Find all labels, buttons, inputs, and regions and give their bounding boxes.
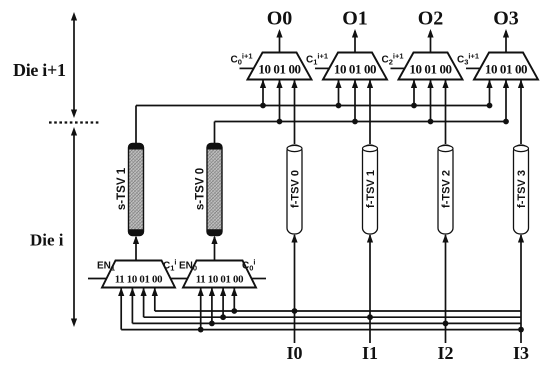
net A: s-TSV 1 output bus wire (136, 106, 490, 144)
wire net-B tap to U2 input 01 (427, 80, 433, 122)
svg-text:10 01 00: 10 01 00 (409, 62, 451, 77)
junction dot net-B at U2 (428, 119, 434, 125)
bus line 1 (net I0) (155, 310, 521, 312)
svg-text:Die i+1: Die i+1 (13, 60, 66, 80)
select wire C0^i into U5 right side (252, 278, 267, 280)
die i+1 extent arrow (71, 12, 77, 118)
wire U5 input 11 from bus line 4 (198, 288, 204, 330)
junction dot I1 to bus line 2 (367, 314, 373, 320)
select wire C1^i into U4 right side, joins EN0 stub (171, 278, 188, 280)
svg-text:I2: I2 (437, 343, 453, 363)
wire f-TSV 1 top to U1 input 00 (367, 80, 373, 145)
junction dot U5 input 10 on bus line 3 (209, 321, 215, 327)
f-TSV 0 cylinder (287, 145, 302, 234)
wire output of U3 to O3 (503, 29, 509, 53)
op mux U3 (output mux O3) (474, 53, 538, 80)
wire U4 input 01 from bus line 2 (141, 288, 147, 318)
wire net-B tap to U0 input 01 (276, 80, 282, 122)
die i extent arrow (71, 127, 77, 327)
junction dot I2 to bus line 3 (443, 321, 449, 327)
s-TSV capsule s-TSV 0 (207, 144, 222, 236)
junction dot U5 input 11 on bus line 4 (198, 327, 204, 333)
junction dot I3 to bus line 4 (518, 327, 524, 333)
f-TSV 1 cylinder (363, 145, 378, 234)
wire net-A tap to U2 input 10 (411, 80, 417, 106)
wire output of U0 to O0 (276, 29, 282, 53)
junction dot net-A at U2 (411, 103, 417, 109)
f-TSV 2 cylinder (438, 145, 453, 234)
junction dot net-A at U1 (336, 103, 342, 109)
svg-text:s-TSV 0: s-TSV 0 (195, 168, 207, 210)
svg-text:I3: I3 (513, 343, 529, 363)
wire net-A tap to U3 input 10 (486, 80, 492, 106)
select wire EN1 into U4 (88, 278, 107, 280)
wire net-A tap to U0 input 10 (260, 80, 266, 106)
svg-text:f-TSV 1: f-TSV 1 (365, 170, 377, 208)
svg-text:10 01 00: 10 01 00 (258, 62, 300, 77)
wire output of U2 to O2 (427, 29, 433, 53)
wire U4 input 10 from bus line 3 (129, 288, 135, 324)
svg-text:O2: O2 (418, 8, 444, 30)
wire f-TSV 0 top to U0 input 00 (291, 80, 297, 145)
select wire C3 i+1 into U3 (466, 67, 481, 69)
svg-text:O1: O1 (342, 8, 368, 30)
junction dot net-B at U0 (277, 119, 283, 125)
svg-text:O3: O3 (493, 8, 519, 30)
junction dot U5 input 01 on bus line 2 (220, 314, 226, 320)
svg-text:f-TSV 2: f-TSV 2 (440, 170, 452, 208)
ip mux U4 (drives s-TSV 1) (102, 261, 175, 288)
wire U5 input 01 from bus line 2 (220, 288, 226, 318)
wire input I3 up into f-TSV 3 (518, 234, 524, 343)
junction dot net-B at U1 (352, 119, 358, 125)
wire output of U5 into s-TSV 0 (211, 236, 217, 261)
select wire C2 i+1 into U2 (391, 67, 406, 69)
bus line 2 (net I1) (144, 316, 521, 318)
wire net-B tap to U1 input 01 (352, 80, 358, 122)
wire net-A tap to U1 input 10 (335, 80, 341, 106)
wire U5 input 10 from bus line 3 (209, 288, 215, 324)
wire output of U1 to O1 (352, 29, 358, 53)
op mux U2 (output mux O2) (399, 53, 463, 80)
wire f-TSV 2 top to U2 input 00 (442, 80, 448, 145)
svg-text:10 01 00: 10 01 00 (334, 62, 376, 77)
op mux U0 (output mux O0) (248, 53, 312, 80)
svg-text:I0: I0 (286, 343, 302, 363)
wire input I2 up into f-TSV 2 (442, 234, 448, 343)
wire U5 input 00 from bus line 1 (231, 288, 237, 312)
svg-text:s-TSV 1: s-TSV 1 (116, 167, 128, 210)
junction dot net-A at U3 (487, 103, 493, 109)
svg-text:11 10 01 00: 11 10 01 00 (196, 274, 243, 286)
net B: s-TSV 0 output bus wire (215, 122, 507, 144)
svg-text:I1: I1 (362, 343, 378, 363)
wire input I0 up into f-TSV 0 (291, 234, 297, 343)
wire f-TSV 3 top to U3 input 00 (518, 80, 524, 145)
junction dot net-A at U0 (260, 103, 266, 109)
wire net-B tap to U3 input 01 (503, 80, 509, 122)
svg-text:f-TSV 0: f-TSV 0 (289, 170, 301, 208)
junction dot net-B at U3 (503, 119, 509, 125)
svg-text:10 01 00: 10 01 00 (485, 62, 527, 77)
bus line 3 (net I2) (132, 322, 521, 324)
select wire C1 i+1 into U1 (315, 67, 330, 69)
wire U4 input 00 from bus line 1 (152, 288, 158, 312)
wire U4 input 11 from bus line 4 (118, 288, 124, 330)
die boundary dashed line (49, 121, 99, 123)
svg-text:Die i: Die i (30, 231, 64, 250)
wire input I1 up into f-TSV 1 (367, 234, 373, 343)
s-TSV capsule s-TSV 1 (129, 144, 144, 236)
op mux U1 (output mux O1) (323, 53, 387, 80)
svg-text:f-TSV 3: f-TSV 3 (516, 170, 528, 208)
junction dot U5 input 00 on bus line 1 (231, 308, 237, 314)
select wire C0 i+1 into U0 (240, 67, 255, 69)
bus line 4 (net I3) (121, 329, 521, 331)
svg-text:11 10 01 00: 11 10 01 00 (115, 274, 162, 286)
junction dot I0 to bus line 1 (292, 308, 298, 314)
ip mux U5 (drives s-TSV 0) (183, 261, 256, 288)
svg-text:O0: O0 (267, 8, 293, 30)
wire output of U4 into s-TSV 1 (133, 236, 139, 261)
f-TSV 3 cylinder (514, 145, 529, 234)
